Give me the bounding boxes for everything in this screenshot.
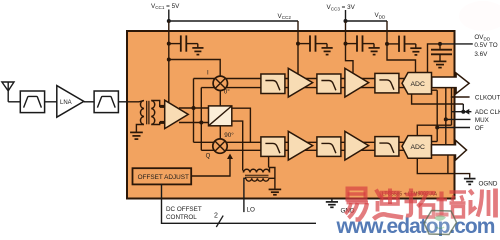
capacitor C2 [298,35,327,51]
wire ADC CLK main [452,111,472,113]
lowpass filter FL1 (I) [261,74,285,94]
node VCC2 cap junction [296,42,300,46]
transformer T1 balun primary [140,101,143,125]
bandpass filter BPF1 [20,91,44,113]
node VCC3 rail junction [344,19,348,23]
transformer T2 LO balun secondary [244,169,270,172]
ground OGND symbol [464,179,476,185]
mixer M2 (Q) [213,139,227,153]
wire antenna to BPF1 [8,101,20,103]
wire stub ADC2 to bus [432,141,438,143]
transformer T1 secondary [151,101,154,125]
ADC U3 (Q) [402,136,432,159]
svg-text:0°: 0° [224,88,231,96]
node VCC1 cap junction [167,42,171,46]
ground for C1 [192,44,203,55]
wire T2 primary right join [269,177,275,179]
amplifier A4 (Q) [288,131,312,160]
node OF junction [435,126,439,130]
svg-text:OF: OF [475,125,484,132]
amplifier A3 (I) [345,68,369,97]
wire phase shifter to LO transformer [232,121,243,170]
wire OVDD out [440,43,473,45]
watermark char pei [436,192,467,218]
svg-text:DC OFFSET: DC OFFSET [166,206,202,213]
capacitor C5 on OVDD [431,44,452,61]
wire VCC1 drop into chip [168,21,170,60]
wire bus vertical x451 [451,88,453,126]
amplifier A2 (I) [288,68,312,97]
svg-text:LNA: LNA [60,100,72,106]
transformer T2 core [245,175,269,177]
lowpass filter FL4 (Q) [261,137,285,157]
wire bus vertical x437 [436,90,438,141]
wire VDD drop [386,21,388,44]
wire VDD feed to ADC1 [387,44,416,73]
arrowhead into mixer M2 [227,154,233,159]
wire bus vertical x446 [445,88,447,145]
wire stub ADC1 to bus [432,89,437,91]
LNA amplifier [57,86,84,118]
watermark char di [374,189,404,220]
ground for C5 [434,61,447,67]
svg-text:CONTROL: CONTROL [166,214,197,221]
transformer T1 core [147,101,149,125]
lowpass filter FL3 (I) [375,73,399,93]
wire I baseband upper rail [194,78,407,80]
svg-text:CLKOUT: CLKOUT [475,95,500,102]
transformer T2 primary [246,178,269,181]
ground chip GND [326,199,338,208]
wire OGND from ADC2 [417,158,469,178]
svg-text:2: 2 [214,213,218,220]
wire VCC1-VCC2 top rail [169,20,298,22]
svg-text:www.edatop.com: www.edatop.com [336,215,495,236]
wire VCC3-VDD top rail [346,20,388,22]
wire CLKOUT [451,96,470,98]
watermark char yi [346,189,369,220]
mixer M1 (I) [213,76,227,90]
lowpass filter FL5 (Q) [317,137,341,157]
amp input stubs [160,106,165,122]
phase shifter PS1 [209,106,232,126]
diff amp A1 [165,100,189,128]
output bus arrow Q [432,140,467,160]
wire I baseband lower rail [201,87,406,89]
wire RF input into chip [118,101,127,103]
lowpass filter FL6 (Q) [375,137,399,157]
amplifier A5 (Q) [345,131,369,160]
node RF B junction [199,121,203,125]
svg-text:OFFSET ADJUST: OFFSET ADJUST [138,174,189,181]
wire Q filter ground stub [268,156,270,167]
wire balun secondary bottom to amp [151,122,165,124]
wire MUX [446,118,471,120]
wire A1 lower output to phase shifter [179,122,209,124]
watermark hexagon logo [424,211,457,235]
bandpass filter BPF2 [94,91,118,113]
node VDD cap junction [385,42,389,46]
wire RF split vertical A [193,79,195,143]
svg-text:90°: 90° [224,131,234,139]
node VCC1 rail junction [167,19,171,23]
svg-text:LO: LO [247,207,256,214]
ground for C4 [410,44,421,55]
wire Q baseband lower rail [201,149,406,151]
wire VCC1 feed to diff amp [168,60,170,103]
wire OVDD feed to ADC1 [428,44,441,73]
svg-text:ADC: ADC [411,144,425,151]
svg-text:3.6V: 3.6V [474,51,488,58]
node RF A junction [192,106,196,110]
wire A1 upper output to phase shifter [179,107,209,109]
lowpass filter FL2 (I) [317,74,341,94]
wire balun secondary top to amp [151,101,165,107]
node ADC CLK junction [462,104,464,112]
wire offset adjust to mixer M2 [191,159,230,177]
wire LO path between mixers [219,77,221,141]
wire bus vertical to OGND [447,155,449,174]
wire VCC2 drop [297,21,299,44]
ground for balun [130,132,143,139]
wire BPF1 to LNA [45,101,57,103]
node OVDD junction [438,42,442,46]
wire phase shifter to Q upper rail [232,108,251,142]
svg-text:ADC: ADC [411,81,425,88]
antenna ANT1 [2,82,14,102]
wire Q baseband upper rail [194,141,407,143]
svg-text:MUX: MUX [475,117,490,124]
node VCC1 branch junction [167,58,171,62]
wire ADC1 clock branch [412,94,464,104]
svg-text:OGND: OGND [479,180,498,187]
capacitor C1 [169,35,198,51]
wire OF [437,127,470,129]
wire VCC3 feed to A3 [346,44,354,73]
arrowhead ADC CLK input [464,109,469,115]
ground for C3 [369,44,380,55]
node VCC3 cap junction [344,42,348,46]
wire VCC3 drop into chip [345,21,347,44]
chip block U1 (demodulator + ADC module) [127,31,455,199]
svg-text:0.5V TO: 0.5V TO [474,42,497,49]
wire LO input stub [244,178,246,212]
svg-text:Q: Q [206,154,211,160]
node MUX junction [444,117,448,121]
ground for C2 [322,44,333,55]
wire LNA to BPF2 [84,101,94,103]
watermark char tuo [405,189,436,218]
watermark pink tinge [459,1,500,31]
wire VCC3 stem [345,10,347,21]
wire VCC2 feed to A2 [297,44,299,75]
wire T2 secondary right to ground [270,168,275,189]
output bus arrow I [432,73,469,94]
wire ADC2 clock branch [417,125,451,135]
wire DC offset control [162,184,317,224]
watermark char xun [470,189,496,218]
ground for T2 [269,189,282,194]
wire VCC1 branch to mixer M1 [169,60,220,77]
wire RF split vertical B [200,88,202,151]
capacitor C4 [387,36,416,52]
bus slash marker [216,216,223,227]
capacitor C3 [346,35,375,51]
wire T2 secondary left up [243,170,245,173]
wire balun primary bottom to ground [136,125,144,132]
ADC U2 (I) [402,73,432,95]
svg-text:ADC CLK: ADC CLK [475,109,500,116]
offset adjust block U4 [133,168,192,184]
wire VCC1 stem [168,10,170,22]
wire balun primary top [127,101,144,102]
